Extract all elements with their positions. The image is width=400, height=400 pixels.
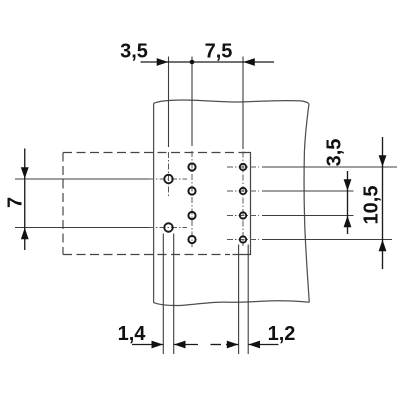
- top dimension dot at col2: [190, 60, 195, 65]
- svg-text:3,5: 3,5: [120, 41, 148, 63]
- drill hole C3 (1.2mm): [240, 212, 246, 218]
- bottom dimension line segment right: [248, 344, 278, 346]
- top dimension arrow right at col1: [157, 58, 169, 66]
- top dimension extension line col2: [191, 57, 193, 147]
- drill hole B3: [188, 212, 195, 219]
- right dimension line 3,5: [347, 171, 349, 234]
- drill hole C4 (1.2mm): [240, 236, 246, 242]
- centerline vertical col1: [168, 152, 170, 198]
- centerline vertical col2: [191, 151, 193, 247]
- pcb outline left edge: [153, 103, 155, 302]
- right dimension line 10,5: [382, 137, 384, 269]
- housing outline dashed bottom: [63, 254, 230, 256]
- drill hole A2 (1.4mm): [164, 223, 173, 232]
- drill hole B2: [188, 187, 195, 194]
- bottom extension line hole C right: [247, 245, 249, 355]
- bottom dimension 1,2 arrow right: [227, 341, 239, 349]
- svg-text:1,2: 1,2: [268, 323, 296, 345]
- right dimension 3,5 arrow down: [344, 179, 352, 191]
- right extension line row4: [262, 239, 392, 241]
- top dimension arrow left at col3: [243, 58, 255, 66]
- bottom dimension 1,2 arrow left: [249, 341, 261, 349]
- left dimension line: [24, 149, 26, 251]
- left dimension arrow up: [21, 228, 29, 240]
- pcb outline bottom edge (break line): [154, 301, 310, 306]
- svg-text:7: 7: [5, 197, 27, 208]
- housing outline solid right edge: [233, 153, 251, 255]
- bottom dimension 1,4 arrow left: [174, 341, 186, 349]
- top dimension extension line col3: [242, 57, 244, 150]
- bottom extension line hole A left: [162, 234, 164, 355]
- pcb outline top edge (break line): [154, 100, 309, 104]
- centerline horizontal row1 col3: [227, 166, 259, 168]
- drill hole B4: [188, 236, 195, 243]
- housing outline dashed top: [63, 152, 245, 154]
- svg-text:1,4: 1,4: [118, 323, 147, 345]
- centerline horizontal row2 col3: [227, 190, 259, 192]
- centerline horizontal hole A1: [148, 178, 187, 180]
- left dimension extension line upper: [15, 178, 149, 180]
- right dimension 10,5 arrow down: [379, 155, 387, 167]
- centerline horizontal row3 col3: [227, 215, 259, 217]
- centerline horizontal row4 col3: [227, 239, 259, 241]
- svg-text:3,5: 3,5: [324, 139, 346, 167]
- bottom dimension 1,4 arrow right: [152, 341, 164, 349]
- centerline vertical col3: [242, 152, 244, 247]
- bottom dimension line segment mid1: [174, 344, 198, 346]
- svg-text:10,5: 10,5: [361, 186, 383, 225]
- bottom extension line hole A right: [173, 234, 175, 355]
- bottom extension line hole C left: [238, 245, 240, 355]
- right extension line row1: [262, 166, 397, 168]
- drill hole B1: [188, 163, 195, 170]
- right extension line row2: [262, 190, 354, 192]
- drill hole C2 (1.2mm): [240, 188, 246, 194]
- svg-text:7,5: 7,5: [205, 41, 233, 63]
- left dimension extension line lower: [15, 227, 149, 229]
- right extension line row3: [262, 215, 354, 217]
- top dimension line: [141, 61, 275, 63]
- drill hole A1 (1.4mm): [164, 175, 173, 184]
- bottom dimension line segment left: [132, 344, 163, 346]
- pcb outline right edge (break line): [304, 104, 309, 303]
- centerline horizontal hole A2: [148, 227, 187, 229]
- drill hole C1 (1.2mm): [240, 164, 246, 170]
- left dimension arrow down: [21, 167, 29, 179]
- bottom dimension line segment mid2: [226, 344, 239, 346]
- top dimension extension line col1: [168, 57, 170, 148]
- housing outline dashed left: [62, 153, 64, 255]
- bottom dimension line dash mid: [211, 344, 222, 346]
- right dimension 3,5 arrow up: [344, 216, 352, 228]
- right dimension 10,5 arrow up: [379, 240, 387, 252]
